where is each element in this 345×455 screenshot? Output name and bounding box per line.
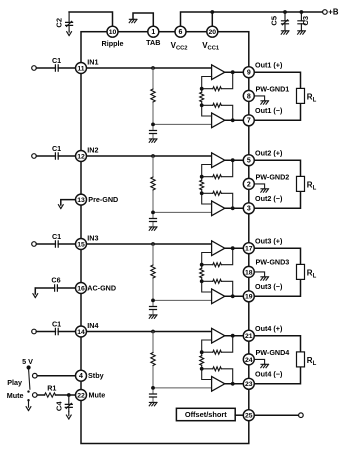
pin 21 — [243, 330, 254, 341]
svg-text:11: 11 — [77, 65, 84, 72]
wire load loop ch3 — [254, 248, 300, 296]
node feedback top ch4 — [200, 350, 204, 354]
wire load loop ch2 — [254, 160, 300, 208]
ground PW-GND1 — [261, 101, 269, 104]
resistor feedback bottom ch2 — [213, 191, 222, 195]
wire output bottom ch4 — [225, 383, 244, 385]
node input junction ch3 — [151, 242, 155, 246]
resistor input filter ch4 — [151, 353, 155, 366]
node input junction ch2 — [151, 154, 155, 158]
resistor gain ch2 — [200, 180, 204, 190]
svg-text:AC-GND: AC-GND — [87, 284, 116, 293]
wire IN2 line — [58, 155, 211, 157]
svg-text:Out3 (−): Out3 (−) — [255, 282, 283, 291]
pin 19 — [243, 291, 254, 302]
wire feedback network ch3 — [202, 248, 233, 296]
wire +B rail — [181, 12, 323, 26]
op-amp top ch1 — [212, 65, 225, 80]
node feedback top ch1 — [200, 87, 204, 91]
svg-text:25: 25 — [245, 413, 253, 420]
svg-text:16: 16 — [77, 285, 85, 292]
pin 22 — [76, 390, 87, 401]
capacitor chain ch1 — [150, 131, 157, 134]
pin 15 — [76, 239, 87, 250]
node C3 on +B rail — [300, 10, 304, 14]
resistor input filter ch3 — [151, 265, 155, 278]
svg-text:IN4: IN4 — [87, 321, 98, 330]
ground TAB — [129, 19, 137, 22]
node chain junction ch4 — [151, 386, 155, 390]
svg-text:6: 6 — [179, 29, 183, 36]
op-amp top ch3 — [212, 241, 225, 256]
node 5V — [27, 365, 31, 369]
svg-text:10: 10 — [109, 29, 117, 36]
pin 1 — [148, 26, 159, 37]
ground chain ch1 — [149, 139, 157, 142]
svg-text:C1: C1 — [52, 56, 61, 65]
node feedback bottom ch2 — [200, 191, 204, 195]
capacitor C6 — [55, 285, 58, 291]
resistor input filter ch1 — [151, 89, 155, 102]
node C5 on +B rail — [283, 10, 287, 14]
ground PW-GND2 — [261, 189, 269, 192]
node chain junction ch2 — [151, 211, 155, 215]
wire pin13 to ground — [61, 200, 76, 205]
pin 12 — [76, 151, 87, 162]
svg-text:12: 12 — [77, 153, 85, 160]
wire R1 to pin22 — [56, 394, 76, 396]
ground PW-GND4 — [261, 364, 269, 367]
node output top ch1 — [231, 70, 235, 74]
node feedback bottom ch1 — [200, 103, 204, 107]
wire box to pin25 — [235, 414, 243, 416]
pin 5 — [243, 155, 254, 166]
resistor R1 — [45, 393, 56, 397]
wire PW-GND4 stub — [254, 359, 264, 364]
node feedback bottom ch4 — [200, 367, 204, 371]
svg-text:Offset/short: Offset/short — [185, 410, 227, 419]
svg-text:PW-GND3: PW-GND3 — [256, 257, 290, 266]
node pin20 riser on +B rail — [210, 10, 214, 14]
svg-text:14: 14 — [77, 329, 85, 336]
IC body outline — [81, 32, 249, 444]
svg-text:R1: R1 — [47, 384, 56, 393]
svg-text:Out1 (+): Out1 (+) — [255, 61, 283, 70]
resistor gain ch1 — [200, 92, 204, 102]
svg-text:+B: +B — [328, 8, 339, 17]
resistor gain ch3 — [200, 268, 204, 278]
block Offset/short — [176, 408, 235, 420]
wire IN3 line — [58, 243, 211, 245]
wire pin10 to C2 rail — [69, 12, 112, 26]
node feedback top ch3 — [200, 263, 204, 267]
wire pin1 TAB to ground — [133, 13, 153, 26]
svg-text:1: 1 — [151, 29, 155, 36]
wire PW-GND1 stub — [254, 96, 264, 101]
wire output top ch1 — [225, 71, 244, 73]
svg-text:21: 21 — [245, 333, 253, 340]
resistor RL ch3 — [297, 264, 305, 279]
svg-text:Out4 (+): Out4 (+) — [255, 324, 283, 333]
svg-text:22: 22 — [77, 392, 85, 399]
ground arrow C4 — [66, 411, 71, 419]
op-amp top ch2 — [212, 153, 225, 168]
ground below C3 — [298, 31, 306, 34]
wire Mute to R1 — [37, 394, 44, 396]
resistor feedback bottom ch4 — [213, 367, 222, 371]
svg-text:13: 13 — [77, 197, 85, 204]
wire PW-GND2 stub — [254, 184, 264, 189]
node input junction ch4 — [151, 330, 155, 334]
svg-text:Out3 (+): Out3 (+) — [255, 237, 283, 246]
resistor feedback bottom ch1 — [213, 103, 222, 107]
svg-text:8: 8 — [247, 93, 251, 100]
wire output top ch2 — [225, 159, 244, 161]
svg-text:7: 7 — [247, 118, 251, 125]
pin 25 — [243, 410, 254, 421]
wire chain ch1 — [153, 68, 212, 139]
terminal input 4 — [32, 329, 37, 334]
resistor input filter ch2 — [151, 177, 155, 190]
pin 16 — [76, 283, 87, 294]
pin 13 — [76, 194, 87, 205]
svg-text:9: 9 — [247, 70, 251, 77]
resistor feedback top ch1 — [213, 87, 222, 91]
resistor feedback top ch4 — [213, 350, 222, 354]
resistor RL ch4 — [297, 352, 305, 367]
wire load loop ch1 — [254, 72, 300, 120]
svg-text:PW-GND4: PW-GND4 — [256, 348, 290, 357]
capacitor C3 — [300, 12, 302, 21]
svg-text:C1: C1 — [52, 144, 61, 153]
op-amp top ch4 — [212, 328, 225, 343]
pin 10 — [107, 26, 118, 37]
ground chain ch4 — [149, 402, 157, 405]
wire IN1 line — [58, 67, 211, 69]
pin 23 — [243, 378, 254, 389]
wire output bottom ch2 — [225, 207, 244, 209]
terminal input 1 — [32, 66, 37, 71]
pin 11 — [76, 63, 87, 74]
svg-text:C5: C5 — [269, 16, 278, 26]
svg-text:4: 4 — [79, 373, 83, 380]
wire output top ch4 — [225, 335, 244, 337]
svg-text:24: 24 — [245, 357, 253, 364]
node chain junction ch1 — [151, 123, 155, 127]
ground below C5 — [281, 31, 289, 34]
svg-text:Stby: Stby — [88, 371, 104, 380]
node output top ch2 — [231, 158, 235, 162]
pin 2 — [243, 178, 254, 189]
svg-text:2: 2 — [247, 181, 251, 188]
resistor feedback bottom ch3 — [213, 279, 222, 283]
wire feedback network ch4 — [202, 336, 233, 384]
node output bottom ch3 — [231, 294, 235, 298]
pin 3 — [243, 203, 254, 214]
svg-text:Mute: Mute — [89, 391, 106, 400]
capacitor C4 — [68, 395, 70, 404]
node C4 junction — [67, 393, 71, 397]
node input junction ch1 — [151, 66, 155, 70]
wire C6 left — [35, 288, 54, 294]
node feedback bottom ch3 — [200, 279, 204, 283]
ground arrow pin13 — [58, 205, 63, 209]
svg-text:Play: Play — [7, 378, 22, 387]
ground chain ch3 — [149, 315, 157, 318]
wire IN4 line — [58, 331, 211, 333]
node feedback top ch2 — [200, 175, 204, 179]
svg-text:C6: C6 — [51, 275, 60, 284]
pin 4 — [76, 370, 87, 381]
capacitor chain ch4 — [150, 394, 157, 397]
ground arrow below C2 — [67, 31, 72, 36]
wire pin25 to terminal — [254, 414, 298, 416]
pin 14 — [76, 326, 87, 337]
ground chain ch2 — [149, 227, 157, 230]
resistor feedback top ch3 — [213, 263, 222, 267]
capacitor C1 ch3 — [36, 243, 55, 245]
node output bottom ch4 — [231, 382, 235, 386]
svg-text:PW-GND2: PW-GND2 — [256, 172, 290, 181]
svg-text:C4: C4 — [54, 401, 63, 411]
terminal +B — [323, 10, 328, 15]
svg-text:Out2 (+): Out2 (+) — [255, 149, 283, 158]
svg-text:C1: C1 — [52, 319, 61, 328]
capacitor C1 ch4 — [36, 331, 55, 333]
svg-text:Out2 (−): Out2 (−) — [255, 194, 283, 203]
svg-text:C3: C3 — [301, 16, 310, 26]
node output bottom ch2 — [231, 206, 235, 210]
op-amp bottom ch1 — [212, 113, 225, 128]
svg-text:C2: C2 — [55, 18, 64, 28]
pin 18 — [243, 266, 254, 277]
resistor RL ch2 — [297, 176, 305, 191]
op-amp bottom ch2 — [212, 201, 225, 216]
node output bottom ch1 — [231, 118, 235, 122]
svg-text:IN2: IN2 — [87, 146, 98, 155]
svg-text:Out4 (−): Out4 (−) — [255, 370, 283, 379]
wire output top ch3 — [225, 247, 244, 249]
terminal input 3 — [32, 242, 37, 247]
wire Play to pin4 — [37, 375, 75, 377]
svg-text:17: 17 — [245, 246, 253, 253]
pin 6 — [175, 26, 186, 37]
ground arrow C6 — [33, 288, 38, 298]
terminal input 2 — [32, 154, 37, 159]
resistor RL ch1 — [297, 88, 305, 103]
wire feedback network ch2 — [202, 160, 233, 208]
svg-text:23: 23 — [245, 381, 253, 388]
pin 7 — [243, 115, 254, 126]
ground PW-GND3 — [261, 277, 269, 280]
switch lever — [29, 370, 30, 390]
capacitor C1 ch1 — [36, 67, 55, 69]
node output top ch3 — [231, 246, 235, 250]
wire feedback network ch1 — [202, 72, 233, 120]
svg-text:Mute: Mute — [7, 391, 24, 400]
wire PW-GND3 stub — [254, 272, 264, 277]
svg-text:20: 20 — [209, 29, 217, 36]
capacitor C5 — [284, 12, 286, 21]
pin 17 — [243, 243, 254, 254]
wire chain ch2 — [153, 156, 212, 227]
wire chain ch4 — [153, 332, 212, 403]
wire output bottom ch1 — [225, 119, 244, 121]
node output top ch4 — [231, 334, 235, 338]
svg-text:3: 3 — [247, 206, 251, 213]
resistor feedback top ch2 — [213, 175, 222, 179]
capacitor chain ch3 — [150, 307, 157, 310]
svg-text:5: 5 — [247, 158, 251, 165]
capacitor C1 ch2 — [36, 155, 55, 157]
node chain junction ch3 — [151, 299, 155, 303]
svg-text:IN3: IN3 — [87, 234, 98, 243]
capacitor chain ch2 — [150, 219, 157, 222]
wire C6 right — [57, 287, 75, 289]
svg-text:IN1: IN1 — [87, 58, 98, 67]
svg-text:15: 15 — [77, 241, 85, 248]
svg-text:Pre-GND: Pre-GND — [88, 195, 118, 204]
svg-text:19: 19 — [245, 294, 253, 301]
svg-text:18: 18 — [245, 269, 253, 276]
capacitor C2 — [68, 12, 70, 22]
ground arrow switch — [26, 401, 31, 411]
terminal offset out — [299, 413, 304, 418]
switch contact Play — [33, 373, 38, 378]
svg-text:C1: C1 — [52, 232, 61, 241]
resistor gain ch4 — [200, 356, 204, 366]
switch pole dots — [27, 390, 29, 392]
pin 20 — [207, 26, 218, 37]
pin 24 — [243, 354, 254, 365]
svg-text:Out1 (−): Out1 (−) — [255, 106, 283, 115]
svg-text:5 V: 5 V — [22, 357, 33, 366]
op-amp bottom ch4 — [212, 376, 225, 391]
switch contact Mute — [33, 393, 38, 398]
wire output bottom ch3 — [225, 295, 244, 297]
pin 8 — [243, 90, 254, 101]
svg-text:Ripple: Ripple — [102, 39, 124, 48]
pin 9 — [243, 67, 254, 78]
op-amp bottom ch3 — [212, 289, 225, 304]
wire load loop ch4 — [254, 336, 300, 384]
svg-text:TAB: TAB — [146, 38, 160, 47]
svg-text:PW-GND1: PW-GND1 — [256, 84, 290, 93]
wire chain ch3 — [153, 244, 212, 315]
